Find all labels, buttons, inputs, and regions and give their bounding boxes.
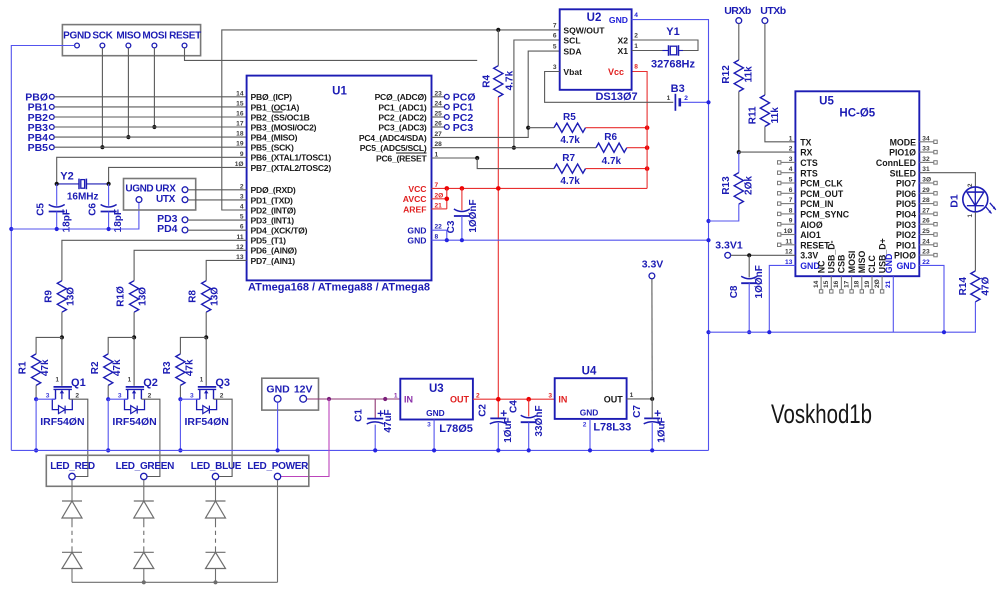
junction MISO-PB4	[126, 135, 130, 139]
svg-text:PC1_(ADC1): PC1_(ADC1)	[378, 102, 427, 112]
svg-text:PC4_(ADC4/SDA): PC4_(ADC4/SDA)	[359, 133, 427, 143]
U1 pin 12 PD6_(AIN0)	[236, 244, 297, 256]
svg-text:Y2: Y2	[60, 170, 73, 182]
wire PB2 to U1 pin 16	[54, 116, 246, 118]
crystal Y2 16MHz	[57, 170, 109, 202]
junction AVCC	[445, 197, 450, 202]
U1 pin 28 PC5_(ADC5/SCL)	[360, 141, 442, 153]
svg-text:R13: R13	[721, 176, 732, 195]
svg-text:1: 1	[967, 214, 974, 218]
svg-text:PIO1: PIO1	[896, 240, 916, 250]
junction gate Q2	[132, 335, 136, 339]
U1 pin 8 GND	[407, 234, 438, 246]
svg-text:PD7_(AIN1): PD7_(AIN1)	[251, 256, 296, 266]
wire StLED to D1	[919, 173, 975, 187]
svg-text:AIO1: AIO1	[800, 230, 821, 240]
svg-text:UGND: UGND	[125, 184, 153, 195]
node PB5	[28, 142, 55, 154]
svg-text:16MHz: 16MHz	[67, 192, 99, 203]
wire main ground bottom rail	[11, 449, 708, 451]
LED string red diodes	[62, 480, 82, 583]
junction RESET net	[475, 156, 479, 160]
node PC0	[432, 92, 476, 104]
svg-text:ATmega168 / ATmega88 / ATmega8: ATmega168 / ATmega88 / ATmega8	[248, 281, 430, 293]
pin circle LED_RED	[69, 473, 75, 479]
wire UTX to U1 TXD	[188, 199, 247, 201]
U5 pin 4 stub	[778, 171, 796, 174]
U5 pin 19 CLC	[864, 254, 877, 293]
LED string green diodes	[134, 480, 154, 583]
svg-text:PGND: PGND	[63, 31, 91, 42]
svg-text:StLED: StLED	[890, 168, 916, 178]
svg-text:OUT: OUT	[450, 395, 470, 405]
pin label PGND	[63, 31, 91, 42]
U5 pin 13 GND	[785, 259, 820, 271]
svg-text:C1: C1	[354, 409, 365, 422]
svg-text:47k: 47k	[40, 359, 51, 376]
U5 pin 16 CSB	[833, 255, 846, 293]
label HC-05	[839, 108, 875, 120]
svg-text:UTXb: UTXb	[760, 5, 786, 17]
U1 pin 1 PC6_(RESET	[376, 152, 439, 164]
svg-text:1: 1	[789, 135, 793, 142]
svg-text:1: 1	[667, 95, 671, 102]
wire U4 GND to rail	[589, 419, 591, 451]
svg-text:CTS: CTS	[800, 158, 818, 168]
junction C8 gnd rail	[747, 330, 751, 334]
U4 pin 2	[583, 421, 587, 428]
svg-text:PD1_(TXD): PD1_(TXD)	[251, 195, 294, 205]
svg-text:D1: D1	[948, 194, 960, 208]
svg-text:2: 2	[75, 392, 79, 399]
pin label SCK	[92, 31, 113, 42]
wire R1 to source	[35, 385, 37, 399]
svg-text:IRF54ØN: IRF54ØN	[185, 416, 229, 428]
junction source Q2 / R2	[106, 397, 110, 401]
wire R9 to gate node	[61, 312, 63, 337]
junction 5V / R4 vertical / C2	[496, 397, 501, 402]
svg-text:R3: R3	[162, 361, 173, 374]
svg-text:SDA: SDA	[563, 47, 581, 57]
svg-text:RESET: RESET	[169, 31, 201, 42]
wire D1 to R14	[974, 212, 976, 271]
svg-text:AVCC: AVCC	[403, 194, 427, 204]
U1 pin 10 PB7_(XTAL2/TOSC2)	[235, 161, 332, 173]
power node 3.3V	[642, 258, 664, 399]
U1 pin 22 GND	[407, 224, 442, 236]
node UTXb	[760, 5, 786, 24]
U5 pin 2 RX	[789, 146, 813, 158]
U5 pin 23 stub	[919, 253, 937, 256]
U4 pin 3 IN	[548, 392, 567, 404]
pin circle LED_BLUE	[212, 473, 218, 479]
svg-text:CSB: CSB	[837, 255, 847, 274]
svg-text:Y1: Y1	[666, 26, 679, 38]
U5 pin 3 CTS	[789, 156, 818, 168]
U3 pin 3	[427, 422, 431, 429]
U5 pin 34 MODE	[890, 135, 930, 147]
svg-text:PB4_(MISO): PB4_(MISO)	[251, 133, 298, 143]
svg-text:MISO: MISO	[857, 251, 867, 274]
svg-text:1: 1	[128, 377, 132, 384]
U1 pin 7 VCC	[408, 182, 438, 194]
label DS1307	[595, 91, 637, 103]
svg-text:18: 18	[236, 131, 244, 138]
U5 pin 25 PIO2	[896, 228, 930, 240]
junction R5 Vcc	[645, 125, 650, 130]
junction Y2 right / C6	[107, 182, 111, 186]
junction Q3 source gnd rail	[178, 448, 182, 452]
svg-text:USB_D-: USB_D-	[827, 240, 837, 273]
wire SQW/OUT net (U2 pin7 to U1 PD2/INT0)	[222, 30, 560, 210]
U1 pin 20 AVCC	[403, 192, 444, 204]
U2 pin 1 X1	[617, 43, 638, 56]
svg-text:LED_GREEN: LED_GREEN	[116, 461, 175, 472]
U1 pin 21 AREF	[403, 202, 442, 214]
svg-text:IN: IN	[558, 395, 567, 405]
label L78L33	[593, 422, 631, 434]
junction SCK-PB5	[100, 145, 104, 149]
U5 pin 15 USB_D-	[823, 240, 836, 293]
U5 pin 11 RESET	[785, 238, 830, 250]
wire PGND to left ground rail	[11, 46, 74, 451]
pin circle LED_POWER	[274, 473, 280, 479]
capacitor C2 10uF	[477, 404, 514, 451]
svg-text:R7: R7	[562, 153, 575, 164]
svg-text:C7: C7	[632, 405, 643, 418]
svg-text:32768Hz: 32768Hz	[651, 59, 696, 71]
svg-text:C2: C2	[477, 404, 488, 417]
svg-text:AIOØ: AIOØ	[800, 220, 823, 230]
svg-text:11k: 11k	[744, 66, 755, 83]
svg-text:3: 3	[553, 64, 557, 71]
U1 pin 17 PB3_(MOSI/OC2)	[236, 121, 316, 133]
U5 pin 22 GND	[896, 259, 930, 271]
U3 GND label	[426, 408, 445, 418]
wire U1 GND row	[432, 230, 709, 240]
svg-text:19: 19	[864, 280, 871, 288]
U2 pin 5 SDA	[553, 44, 582, 57]
junction VCC / AVCC riser	[445, 186, 450, 191]
svg-text:PIO4: PIO4	[896, 210, 916, 220]
svg-text:RX: RX	[800, 148, 812, 158]
svg-text:Q3: Q3	[215, 377, 230, 389]
svg-text:R8: R8	[188, 290, 199, 303]
svg-text:DS13Ø7: DS13Ø7	[595, 91, 637, 103]
ic U5 HC-05 body	[795, 91, 919, 276]
junction MOSI-PB3	[152, 125, 156, 129]
title Voskhod1b	[771, 399, 872, 429]
svg-text:C8: C8	[729, 285, 740, 298]
U5 pin 32 ConnLED	[876, 156, 930, 168]
U5 pin 21 GND	[884, 254, 894, 333]
svg-text:12: 12	[785, 249, 793, 256]
U5 pin 29 stub	[919, 192, 937, 195]
svg-text:1ØuF: 1ØuF	[657, 417, 668, 443]
node PB0	[25, 92, 54, 104]
junction GND22	[445, 238, 449, 242]
wire gate node to R3	[180, 337, 206, 354]
svg-text:UTX: UTX	[156, 194, 176, 205]
svg-text:1ØuF: 1ØuF	[503, 417, 514, 443]
junction VCC / R4 red vertical	[496, 186, 501, 191]
junction SDA / R5	[526, 126, 530, 130]
pin label LED_RED	[50, 461, 95, 472]
label U2	[587, 12, 602, 24]
U1 pin 13 PD7_(AIN1)	[236, 254, 295, 266]
label UGND	[125, 184, 153, 195]
wire U4 OUT to 3.3V node	[627, 398, 653, 400]
label URX	[155, 184, 176, 195]
node PD3	[157, 213, 188, 225]
wire gate node to R2	[108, 337, 134, 354]
pin label LED_BLUE	[191, 461, 242, 472]
wire R10 to gate node	[133, 312, 135, 337]
node PB4	[28, 132, 55, 144]
crystal Y1 32768Hz	[651, 26, 696, 70]
regulator U4 L78L33 body	[555, 378, 627, 419]
U5 pin 11 stub	[778, 243, 796, 246]
svg-text:3.3V1: 3.3V1	[715, 239, 743, 251]
resistor R1 47k gate pulldown	[18, 354, 52, 386]
wire R2 to source	[107, 385, 109, 399]
U5 pin 27 stub	[919, 212, 937, 215]
svg-text:15: 15	[823, 280, 830, 288]
svg-text:PB3_(MOSI/OC2): PB3_(MOSI/OC2)	[251, 122, 317, 132]
wire U2 X2 loop	[632, 40, 698, 51]
svg-text:C6: C6	[88, 203, 99, 216]
U5 pin 9 AIO0	[789, 218, 823, 230]
U5 pin 6 stub	[778, 192, 796, 195]
LED string blue diodes	[206, 480, 226, 583]
node PB1	[28, 102, 55, 114]
svg-text:MOSI: MOSI	[142, 31, 167, 42]
U5 pin 7 stub	[778, 202, 796, 205]
wire PB1 to U1 pin 15	[54, 106, 246, 108]
label ATmega168 / ATmega88 / ATmega8	[248, 281, 430, 293]
svg-text:PD6_(AINØ): PD6_(AINØ)	[251, 246, 298, 256]
junction gate Q3	[204, 335, 208, 339]
svg-text:PIO2: PIO2	[896, 230, 916, 240]
svg-text:OUT: OUT	[604, 395, 624, 405]
svg-text:C3: C3	[446, 220, 457, 233]
capacitor C8 100nF	[729, 255, 765, 332]
U2 pin 8 Vcc	[608, 64, 638, 78]
U5 pin 27 PIO4	[896, 207, 930, 219]
wire source Q3 to ground rail	[180, 399, 199, 450]
U5 pin 17 MOSI	[843, 251, 856, 293]
U1 pin 3 PD1_(TXD)	[240, 193, 293, 205]
resistor R5 4.7k	[528, 112, 647, 146]
svg-text:SQW/OUT: SQW/OUT	[563, 25, 605, 35]
wire R8 to gate node	[205, 312, 207, 337]
svg-text:Q2: Q2	[143, 377, 158, 389]
U5 pin 23 PIO0	[894, 249, 930, 261]
U3 pin 2 OUT	[450, 392, 480, 404]
svg-text:R12: R12	[721, 65, 732, 84]
label U5	[819, 95, 834, 107]
junction Q1 source gnd rail	[34, 448, 38, 452]
svg-text:PIOØ: PIOØ	[894, 251, 916, 261]
wire U3 GND to rail	[433, 420, 435, 451]
wire R3 to source	[179, 385, 181, 399]
svg-text:18: 18	[854, 280, 861, 288]
wire power GND to rail	[277, 402, 279, 450]
svg-text:3: 3	[46, 392, 50, 399]
svg-text:2: 2	[967, 183, 974, 187]
node UGND circle	[136, 197, 142, 203]
resistor R10 130	[116, 281, 149, 313]
svg-text:2: 2	[634, 33, 638, 40]
connector UART header UGND/URX/UTX	[124, 179, 196, 211]
pin circle LED_GREEN	[141, 473, 147, 479]
junction pin22 gnd rail	[942, 330, 946, 334]
svg-text:R1: R1	[18, 361, 29, 374]
svg-text:B3: B3	[671, 83, 685, 95]
U1 pin 16 PB2_(SS/OC1B	[236, 111, 309, 123]
U5 pin 3 stub	[778, 161, 796, 164]
U5 pin 1 TX	[789, 135, 812, 147]
junction RX divider	[737, 150, 741, 154]
resistor R4 4.7k pull-up on SQW	[482, 30, 516, 97]
wire SDA net (U2 pin5 - U1 pin27)	[432, 51, 560, 137]
svg-text:HC-Ø5: HC-Ø5	[839, 108, 875, 120]
resistor R11 11k	[747, 24, 795, 142]
wire RX node to U5	[739, 151, 796, 153]
U5 pin 30 stub	[919, 181, 937, 184]
label U1	[332, 86, 347, 98]
U5 pin 26 PIO3	[896, 218, 930, 230]
svg-text:NC: NC	[816, 260, 826, 273]
wire Vbat to B3	[545, 72, 674, 103]
junction U4 gnd rail	[588, 448, 592, 452]
svg-text:PC2_(ADC2): PC2_(ADC2)	[378, 112, 427, 122]
junction U3 gnd rail	[432, 448, 436, 452]
wire U3 OUT to U4 IN (5V)	[473, 398, 555, 400]
U5 pin 10 AIO1	[784, 228, 821, 240]
junction 12V / LED_POWER branch	[327, 397, 331, 401]
svg-text:CLC: CLC	[867, 254, 877, 273]
svg-text:1: 1	[55, 377, 59, 384]
overline PC6 RESET	[396, 152, 427, 154]
svg-text:3: 3	[427, 422, 431, 429]
wire 12V branch to LED_POWER	[281, 399, 329, 477]
wire source Q2 to ground rail	[108, 399, 128, 450]
wire U2 GND pin4 to ground vertical	[632, 20, 709, 451]
svg-text:1: 1	[634, 43, 638, 50]
svg-text:4: 4	[634, 12, 638, 19]
resistor R3 47k gate pulldown	[162, 354, 196, 386]
U5 pin 20 USB_D+	[874, 238, 887, 293]
svg-text:IRF54ØN: IRF54ØN	[112, 416, 156, 428]
svg-text:PD3_(INT1): PD3_(INT1)	[251, 216, 295, 226]
pin label LED_POWER	[247, 461, 309, 472]
junction PGND rail / C5C6 gnd	[9, 227, 13, 231]
junction VCC / C3	[460, 186, 465, 191]
wire U5 pin22 GND	[919, 265, 944, 332]
connector J-ISP programming header	[62, 25, 200, 56]
junction SQW-R4	[496, 28, 500, 32]
junction Q2 source gnd rail	[106, 448, 110, 452]
label U4	[582, 366, 597, 378]
svg-text:SCK: SCK	[92, 31, 113, 42]
junction 3.3V1 / C8	[747, 253, 751, 257]
U1 pin 6 PD4_(XCK/T0)	[240, 224, 308, 236]
svg-text:R5: R5	[563, 112, 576, 123]
U5 pin 6 PCM_OUT	[789, 187, 844, 199]
junction blue string	[213, 580, 217, 584]
resistor R12 11k	[721, 24, 754, 153]
pin circle 12V	[300, 395, 307, 402]
junction C7 gnd rail	[650, 448, 654, 452]
svg-text:LED_BLUE: LED_BLUE	[191, 461, 242, 472]
svg-text:PC3_(ADC3): PC3_(ADC3)	[378, 122, 427, 132]
U1 pin 5 PD3_(INT1)	[240, 214, 294, 226]
svg-text:1: 1	[394, 392, 398, 399]
svg-text:17: 17	[843, 280, 850, 288]
U1 pin 18 PB4_(MISO)	[236, 131, 297, 143]
node PC3	[432, 122, 474, 134]
svg-text:33ØnF: 33ØnF	[534, 405, 545, 436]
wire URX to U1 RXD	[188, 189, 247, 191]
capacitor C5 18pF	[36, 184, 73, 232]
svg-text:11k: 11k	[770, 107, 781, 124]
svg-text:IN: IN	[404, 395, 413, 405]
svg-text:SCL: SCL	[563, 36, 580, 46]
svg-text:Q1: Q1	[71, 377, 86, 389]
wire PD3 to U1	[188, 219, 247, 221]
node PB2	[28, 112, 55, 124]
wire 3.3V1 to U5 pin12	[731, 254, 796, 256]
svg-text:C5: C5	[36, 203, 47, 216]
svg-text:PB5_(SCK): PB5_(SCK)	[251, 143, 295, 153]
svg-text:17: 17	[236, 121, 244, 128]
svg-text:4.7k: 4.7k	[560, 135, 580, 146]
svg-text:L78Ø5: L78Ø5	[439, 423, 473, 435]
wire MOSI to PB3	[153, 48, 155, 127]
svg-text:2: 2	[583, 421, 587, 428]
resistor R9 130	[43, 281, 76, 313]
junction gate Q1	[60, 335, 64, 339]
wire MISO to PB4	[127, 48, 129, 137]
U3 pin 1 IN	[394, 392, 413, 404]
junction U1 GND row at vertical	[706, 238, 710, 242]
junction C6 gnd	[107, 227, 111, 231]
U1 pin 27 PC4_(ADC4/SDA)	[359, 131, 442, 143]
capacitor C7 10uF	[632, 399, 668, 451]
junction C5 gnd	[55, 227, 59, 231]
svg-text:Vbat: Vbat	[563, 67, 582, 77]
svg-text:VCC: VCC	[408, 184, 426, 194]
pin label RESET	[169, 31, 201, 42]
wire U5 ground rail	[709, 302, 976, 332]
wire R4 bottom to VCC rail (red vertical)	[497, 97, 499, 418]
wire LED common return rail	[72, 480, 278, 582]
U5 pin 8 stub	[778, 212, 796, 215]
U5 pin 33 stub	[919, 150, 937, 153]
label UTX	[156, 194, 176, 205]
U2 pin 7 SQW/OUT	[553, 23, 605, 36]
svg-text:2: 2	[220, 392, 224, 399]
wire U1 to R10	[134, 250, 247, 280]
svg-text:PB1_(OC1A): PB1_(OC1A)	[251, 102, 300, 112]
wire PB0 to U1 pin 14	[54, 96, 246, 98]
wire PB3 to U1 pin 17	[54, 126, 246, 128]
label U3	[429, 383, 444, 395]
wire U1 XTAL2 to Y2	[109, 167, 247, 184]
U2 pin 6 SCL	[553, 33, 581, 46]
junction C2 gnd rail	[496, 448, 500, 452]
